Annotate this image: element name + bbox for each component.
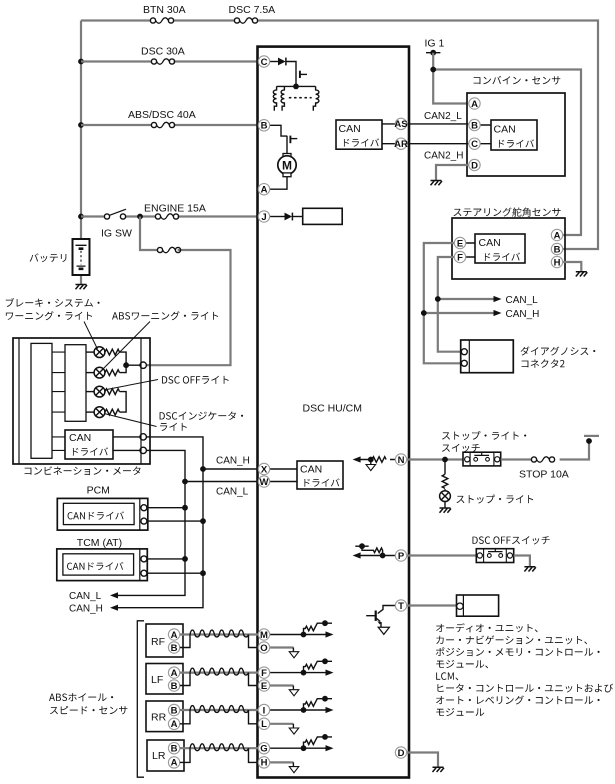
switch IG SW <box>104 209 126 219</box>
CAN driver U2 (combine sensor) <box>491 120 537 150</box>
terminal M (DSC left) <box>258 629 269 641</box>
node: wheel signal junction <box>301 670 307 676</box>
wire: combine B/C to CAN driver <box>480 125 491 144</box>
lamp stop light <box>440 491 451 502</box>
svg-text:A: A <box>171 630 178 641</box>
resistor (N input) <box>372 457 386 463</box>
label カー・ナビゲーション・ユニット、 <box>436 635 587 644</box>
wire: CAN_H stub arrow <box>424 312 496 314</box>
label CANドライバ <box>68 511 124 519</box>
meter internal block left <box>31 343 52 458</box>
wire: P to DSC OFF switch <box>407 554 477 556</box>
resistor (stop light) <box>442 474 448 488</box>
node: TCM CAN_H tap <box>200 570 206 576</box>
svg-text:CAN: CAN <box>300 464 322 476</box>
svg-text:A: A <box>261 185 268 196</box>
wire: steering E/F to CAN driver <box>466 243 475 257</box>
svg-text:C: C <box>261 57 268 68</box>
svg-text:L: L <box>261 719 267 730</box>
terminal PCM CAN2 <box>141 518 147 524</box>
connector: audio unit etc <box>457 595 499 616</box>
node: pull-up bar dot <box>322 734 328 740</box>
svg-text:PCM: PCM <box>87 485 110 497</box>
svg-text:CAN: CAN <box>339 123 361 135</box>
svg-text:G: G <box>260 744 267 755</box>
terminal: meter CAN L <box>140 447 146 453</box>
wire: combine D to ground <box>436 165 469 181</box>
wire: wheel signal line <box>270 709 326 711</box>
node: CAN_H tap <box>421 310 427 316</box>
resistor (lamp 4) <box>105 409 120 415</box>
wire: CAN_L bus (meter to W, PCM, TCM) <box>112 450 259 595</box>
svg-text:A: A <box>471 99 478 110</box>
LR wheel speed sensor <box>147 740 184 771</box>
terminal TCM CAN1 <box>141 556 147 562</box>
terminal E (DSC left) <box>258 680 269 692</box>
label CANドライバ <box>67 562 123 570</box>
node: IG1 branch <box>430 67 436 73</box>
svg-text:B: B <box>171 643 178 654</box>
coil L3 solenoid valve <box>313 86 319 110</box>
internal block (unlabeled) <box>303 208 343 224</box>
combine sensor box <box>467 93 565 176</box>
terminal H (DSC left) <box>258 757 269 769</box>
transistor Q1 solenoid driver FET <box>296 71 307 87</box>
wire: meter CAN driver to terminals <box>113 437 140 451</box>
svg-text:M: M <box>282 158 292 172</box>
resistor (P pull-up) <box>362 546 383 555</box>
resistor (lamp 3) <box>105 389 120 395</box>
fuse BTN 30A <box>150 18 173 23</box>
coil L2 solenoid valve <box>281 86 284 110</box>
wire: CAN_H arrow end <box>110 605 118 611</box>
node: solenoid header junction <box>277 85 316 87</box>
svg-text:STOP 10A: STOP 10A <box>519 468 569 480</box>
wire: battery positive top rail <box>81 21 598 250</box>
svg-text:CAN: CAN <box>479 237 501 249</box>
fuse STOP 10A <box>531 457 554 462</box>
svg-text:ENGINE 15A: ENGINE 15A <box>144 203 206 215</box>
svg-text:W: W <box>260 477 269 488</box>
wire: ABS/DSC 40A feed to terminal B <box>81 124 258 126</box>
resistor (wheel input pull-up) <box>304 699 333 710</box>
label DSC OFFスイッチ <box>472 536 549 544</box>
wire: left battery rail <box>80 21 82 240</box>
node: rail junction DSC30A <box>78 59 84 65</box>
terminal AS (DSC right) <box>394 118 407 130</box>
svg-text:T: T <box>398 601 404 612</box>
ground: DSC OFF switch <box>524 567 536 572</box>
label バッテリ <box>30 253 67 262</box>
node: pull-up bar dot <box>322 658 328 664</box>
node: ENGINE/branch junction <box>137 214 143 220</box>
label ポジション・メモリ・コントロール・ <box>436 647 600 656</box>
fuse DSC 7.5A <box>234 18 257 23</box>
node: TCM CAN_L tap <box>182 556 188 562</box>
label コンバイン・センサ <box>474 76 561 85</box>
svg-text:LF: LF <box>151 674 163 686</box>
svg-text:B: B <box>554 244 561 255</box>
svg-text:CAN: CAN <box>494 124 516 136</box>
wire: T output internal <box>378 606 396 614</box>
wire: ENGINE 15A feed to terminal J <box>81 215 258 217</box>
svg-text:BTN 30A: BTN 30A <box>143 4 186 16</box>
terminal J (DSC left) <box>258 211 269 223</box>
motor M pump <box>278 154 296 177</box>
node: PCM CAN_L tap <box>182 505 188 511</box>
resistor (wheel input pull-up) <box>304 623 333 634</box>
signal triangle (wheel return) <box>289 767 299 773</box>
svg-text:E: E <box>457 238 463 249</box>
DSC HU/CM control module box <box>258 47 410 778</box>
svg-text:C: C <box>471 139 478 150</box>
ground: terminal D <box>433 767 445 772</box>
wire: CAN_L arrow end <box>110 592 118 598</box>
svg-text:P: P <box>398 551 405 562</box>
svg-text:AS: AS <box>394 119 407 130</box>
fuse meter branch <box>157 247 180 252</box>
switch: DSC OFF switch <box>476 549 513 563</box>
wire: RR sensor pair to DSC <box>180 709 259 711</box>
svg-text:CAN_L: CAN_L <box>216 487 249 498</box>
wire: steering E to CAN_H bus <box>424 243 462 363</box>
terminal H (steering) <box>551 256 562 268</box>
diode D1 (terminal C) <box>278 58 286 66</box>
wire: lamp bus rows 1-2 <box>120 352 141 373</box>
wire: wheel signal line <box>270 634 326 636</box>
label ヒータ・コントロール・ユニットおよび <box>437 684 613 693</box>
leader line: DSC indicator label <box>104 414 157 427</box>
terminal I (DSC left) <box>258 704 269 716</box>
terminal B (DSC left) <box>258 120 269 132</box>
svg-text:RR: RR <box>151 712 167 724</box>
svg-text:IG 1: IG 1 <box>425 38 445 50</box>
combination meter box <box>13 338 150 464</box>
wire: DSC OFF switch to ground <box>514 556 530 567</box>
terminal E (steering) <box>454 237 465 249</box>
svg-text:D: D <box>398 748 405 759</box>
terminal F (steering) <box>454 251 465 263</box>
signal triangle (wheel return) <box>289 690 299 696</box>
CAN driver U3 (steering sensor) <box>475 234 525 263</box>
wire: C diode feed <box>270 61 278 63</box>
label モジュール <box>436 708 484 716</box>
resistor (lamp 1) <box>105 349 120 355</box>
svg-text:B: B <box>471 120 478 131</box>
CAN driver U5 (DSC main) <box>297 461 343 489</box>
svg-text:CAN_H: CAN_H <box>506 309 540 320</box>
label ドライバ <box>499 139 534 147</box>
wire: twisted pair (RF) <box>190 630 249 637</box>
svg-text:AR: AR <box>394 139 408 150</box>
wire: wheel return line <box>270 684 294 686</box>
svg-text:O: O <box>260 643 267 654</box>
label ステアリング舵角センサ <box>453 207 560 216</box>
ground: combine sensor <box>431 181 443 186</box>
svg-text:B: B <box>171 744 178 755</box>
svg-text:CAN2_H: CAN2_H <box>424 151 463 162</box>
wire: CAN_H bus (meter to X, PCM, TCM) <box>112 437 259 608</box>
svg-text:DSC HU/CM: DSC HU/CM <box>303 403 363 415</box>
wire: wheel return line <box>270 761 294 763</box>
transistor Q3 (terminal T) <box>366 611 381 628</box>
label ドライバ <box>73 447 108 455</box>
label ブレーキ・システム・ <box>6 298 100 307</box>
wire: twisted pair (LF) <box>190 668 249 675</box>
label コネクタ2 <box>522 359 565 367</box>
wire: motor to terminal A <box>270 177 287 190</box>
meter internal block mid <box>65 345 86 422</box>
svg-text:CAN_L: CAN_L <box>506 295 539 306</box>
label ABSホイール・ <box>49 693 113 701</box>
wire: wheel signal line <box>270 747 326 749</box>
CAN driver U1 (CAN2) <box>336 120 382 149</box>
terminal D (DSC right) <box>395 747 406 759</box>
svg-text:A: A <box>171 668 178 679</box>
wire: LR sensor pair to DSC <box>180 747 259 749</box>
node: rail junction IG SW <box>78 214 84 220</box>
wire: IG 1 to combine sensor A and steering sensor A <box>433 53 581 235</box>
wire: RF sensor pair to DSC <box>180 633 259 635</box>
pin 2 (diagnosis connector) <box>461 360 467 366</box>
terminal: meter lamp feed <box>140 362 146 368</box>
terminal A (RF) <box>168 629 179 641</box>
node: pull-up bar dot <box>322 696 328 702</box>
svg-text:LR: LR <box>152 750 166 762</box>
wire: wheel return line <box>270 723 294 725</box>
terminal: meter CAN H <box>140 434 146 440</box>
terminal B (steering) <box>551 243 562 255</box>
wire: meter block links <box>52 352 65 450</box>
wire: switch to STOP fuse to battery feed <box>501 443 589 460</box>
wire: J diode feed <box>270 216 285 218</box>
wire: P DSC OFF signal internal <box>360 555 396 557</box>
wire: N stop light signal internal <box>360 459 396 461</box>
node: battery feed stub <box>584 435 599 437</box>
terminal B (RF) <box>168 642 179 654</box>
svg-text:IG SW: IG SW <box>101 228 132 240</box>
label ドライバ <box>485 253 520 261</box>
wire: D to ground <box>407 753 438 768</box>
terminal A (steering) <box>551 229 562 241</box>
terminal F (DSC left) <box>258 667 269 679</box>
node: N internal junction <box>368 457 374 463</box>
fuse ENGINE 15A <box>155 214 178 219</box>
terminal C (combine) <box>469 138 480 150</box>
diode D2 (terminal J) <box>285 213 293 221</box>
node: CAN_L to W <box>182 479 188 485</box>
svg-text:J: J <box>261 212 266 223</box>
label ストップ・ライト <box>456 495 533 504</box>
CAN driver U4 (meter) <box>65 430 113 459</box>
node IG 1 tap <box>426 53 440 70</box>
svg-text:H: H <box>554 257 561 268</box>
wire: dotted continuation of solenoid bank <box>290 97 312 99</box>
label ドライバ <box>344 138 379 146</box>
terminal TCM CAN2 <box>141 570 147 576</box>
wire: wheel signal line <box>270 672 326 674</box>
terminal D (combine) <box>469 159 480 171</box>
label オート・レベリング・コントロール・ <box>436 695 600 704</box>
wire: meter lamp feed branch <box>140 217 231 366</box>
LF wheel speed sensor <box>146 664 183 695</box>
svg-text:CAN2_L: CAN2_L <box>424 111 462 122</box>
label DSC OFFライト <box>162 376 229 384</box>
fuse ABS/DSC 40A <box>151 122 174 127</box>
label オーディオ・ユニット、 <box>436 623 537 632</box>
svg-text:E: E <box>261 681 267 692</box>
terminal O (DSC left) <box>258 642 269 654</box>
wire CAN2_L (AS to combine B) <box>407 123 468 125</box>
svg-text:N: N <box>398 455 405 466</box>
wire: twisted pair (RR) <box>190 706 249 713</box>
wire: stop light branch <box>444 460 446 509</box>
svg-text:A: A <box>554 230 561 241</box>
CAN driver (TCM) <box>63 554 134 575</box>
steering angle sensor box <box>452 218 565 279</box>
resistor (lamp 2) <box>105 370 120 376</box>
node: PCM CAN_H tap <box>200 518 206 524</box>
wire: steering H to ground <box>563 262 582 272</box>
label LCM、 <box>436 672 458 680</box>
terminal A (combine) <box>469 98 480 110</box>
signal triangle (N) <box>370 460 372 465</box>
coil L1 solenoid valve <box>273 86 276 110</box>
wire: steering F to CAN_L bus <box>438 257 462 352</box>
svg-text:TCM (AT): TCM (AT) <box>77 537 122 549</box>
wire: PCM to CAN bus <box>147 508 203 521</box>
label スイッチ <box>442 444 480 452</box>
wire: CAN_L stub arrow <box>438 298 496 300</box>
pin 1 (diagnosis connector) <box>461 349 467 355</box>
terminal AR (DSC right) <box>394 138 408 150</box>
terminal A (LF) <box>168 667 179 679</box>
svg-text:M: M <box>260 630 268 641</box>
label ストップ・ライト・ <box>442 431 526 440</box>
terminal G (DSC left) <box>258 743 269 755</box>
terminal W (DSC left) <box>258 476 269 488</box>
svg-text:B: B <box>261 121 268 132</box>
leader line: brake warning label <box>84 322 98 350</box>
node: wheel signal junction <box>301 707 307 713</box>
wire: TCM to CAN bus <box>147 559 203 573</box>
lamp DSC indicator light <box>86 411 94 413</box>
label スピード・センサ <box>50 706 127 715</box>
signal triangle (wheel return) <box>289 652 299 658</box>
wire: diode to solenoid MOSFET <box>286 62 296 71</box>
node: lamp feed junction <box>123 362 129 368</box>
wire: X/W to CAN driver <box>270 469 297 482</box>
wire: twisted pair (LR) <box>190 744 249 751</box>
switch: stop light switch <box>463 452 501 466</box>
svg-text:CAN_H: CAN_H <box>216 456 250 467</box>
node: CAN_L tap <box>435 296 441 302</box>
RF wheel speed sensor <box>146 624 183 657</box>
node: wheel signal junction <box>301 632 307 638</box>
terminal P (DSC right) <box>395 550 406 562</box>
RR wheel speed sensor <box>146 701 183 732</box>
wire: wheel return line <box>270 646 294 648</box>
svg-text:F: F <box>457 252 463 263</box>
svg-text:A: A <box>171 758 178 769</box>
battery <box>73 239 90 285</box>
fuse DSC 30A <box>151 59 174 64</box>
svg-text:F: F <box>261 668 267 679</box>
terminal T (DSC right) <box>395 600 406 612</box>
svg-text:CAN: CAN <box>69 432 91 444</box>
svg-text:DSC 30A: DSC 30A <box>141 46 185 58</box>
ground: battery <box>76 285 88 290</box>
signal triangle (wheel return) <box>289 728 299 734</box>
svg-text:B: B <box>171 681 178 692</box>
resistor (wheel input pull-up) <box>304 737 333 748</box>
wire: DSC 30A feed to terminal C <box>81 60 258 62</box>
svg-text:A: A <box>171 719 178 730</box>
CAN driver (PCM) <box>63 503 134 524</box>
node: pull-up bar dot <box>322 620 328 626</box>
terminal N (DSC right) <box>395 454 406 466</box>
label ドライバ <box>304 478 339 486</box>
svg-text:B: B <box>171 705 178 716</box>
signal triangle (T) <box>378 627 389 634</box>
lamp ABS warning light <box>86 372 94 374</box>
wire: N to stop light switch <box>407 458 463 460</box>
transistor Q2 pump motor FET <box>290 136 297 144</box>
ground: stop light <box>440 508 452 513</box>
label コンビネーション・メータ <box>25 466 141 475</box>
label DSCインジケータ・ <box>160 411 244 419</box>
node: wheel signal junction <box>301 745 307 751</box>
svg-text:RF: RF <box>151 636 165 648</box>
lamp DSC OFF light <box>86 391 94 393</box>
label ABSワーニング・ライト <box>112 311 218 320</box>
wire: T to audio unit connector <box>407 604 457 606</box>
terminal A (DSC left) <box>258 184 269 196</box>
terminal B (LF) <box>168 680 179 692</box>
lamp brake system warning light <box>86 351 94 353</box>
node: rail junction ABS/DSC <box>78 122 84 128</box>
terminal B (LR) <box>168 743 179 755</box>
terminal B (RR) <box>168 704 179 716</box>
svg-text:CAN_H: CAN_H <box>69 604 103 615</box>
node: P pull-up bar <box>355 545 368 547</box>
svg-text:H: H <box>261 758 268 769</box>
node: P internal junction <box>380 553 386 559</box>
svg-text:DSC 7.5A: DSC 7.5A <box>229 4 276 16</box>
label ワーニング・ライト <box>6 311 92 320</box>
wire: lamp bus rows 3-4 <box>120 392 127 413</box>
svg-text:X: X <box>261 464 268 475</box>
label ライト <box>160 423 187 431</box>
diagnosis connector 2 box <box>461 340 514 373</box>
terminal B (combine) <box>469 119 480 131</box>
svg-text:I: I <box>263 705 266 716</box>
svg-text:ABS/DSC 40A: ABS/DSC 40A <box>128 109 196 121</box>
ground: steering sensor <box>576 272 588 277</box>
wire: LF sensor pair to DSC <box>180 671 259 673</box>
svg-text:CAN_L: CAN_L <box>69 591 102 602</box>
resistor (wheel input pull-up) <box>304 661 333 672</box>
terminal L (DSC left) <box>258 718 269 730</box>
terminal A (LR) <box>168 757 179 769</box>
terminal PCM CAN1 <box>141 505 147 511</box>
label モジュール、 <box>436 660 488 668</box>
label ダイアグノシス・ <box>521 346 596 355</box>
svg-text:D: D <box>471 160 478 171</box>
node: stop lamp branch <box>442 457 448 463</box>
terminal A (RR) <box>168 718 179 730</box>
wire CAN2_H (AR to combine C) <box>407 143 468 145</box>
